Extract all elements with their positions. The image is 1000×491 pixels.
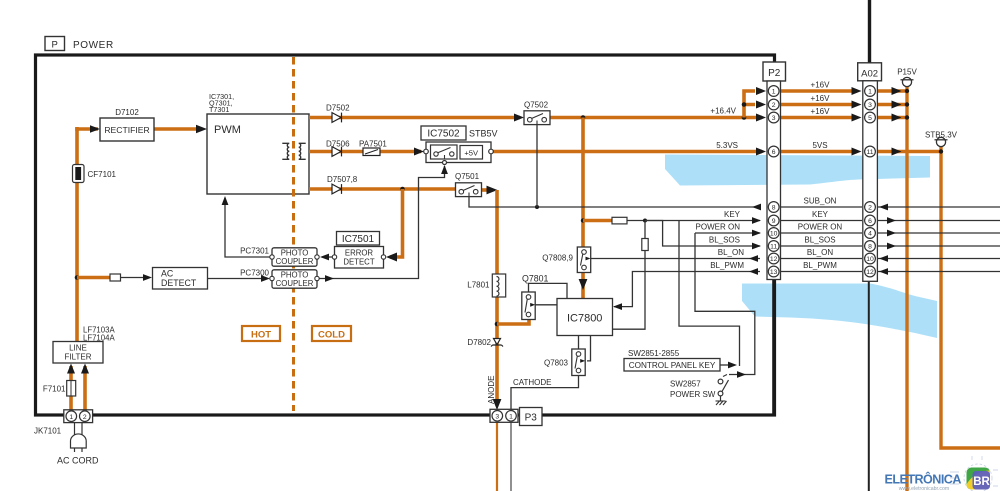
svg-text:RECTIFIER: RECTIFIER [104,125,149,135]
svg-text:Q7808,9: Q7808,9 [542,254,573,263]
svg-text:AC CORD: AC CORD [57,456,99,466]
svg-text:BL_SOS: BL_SOS [709,236,740,245]
svg-text:HOT: HOT [251,329,271,340]
arrow into rectifier [90,125,100,133]
svg-text:KEY: KEY [724,210,741,219]
node: key chain [643,219,647,223]
svg-text:COUPLER: COUPLER [276,279,314,288]
connector A02 [858,63,882,281]
svg-text:ELETRÔNICA: ELETRÔNICA [885,472,962,487]
wire: +16V rows A02 to P15V rail [877,91,940,152]
svg-text:11: 11 [770,244,777,251]
arrow on PC7300 output [325,275,334,282]
IC7501 tag [337,232,380,246]
svg-text:P3: P3 [525,413,538,424]
arrow into pin11 [752,243,761,250]
arrow into ERROR DETECT [386,253,397,262]
svg-text:www.eletronicabr.com: www.eletronicabr.com [899,486,949,491]
svg-text:13: 13 [770,269,778,276]
highlight band 2 (BL_PWM area) [742,284,937,339]
wire: resistor chain to IC7800 [613,221,646,330]
svg-text:POWER: POWER [73,40,114,51]
wire: BL_ON row [591,258,761,260]
A02 pins [865,86,876,277]
arrows into A02 pins 1,3,5,11 [852,87,862,156]
svg-text:LINE: LINE [69,343,87,352]
arrow into PC7300 [261,275,270,282]
svg-text:CONTROL PANEL KEY: CONTROL PANEL KEY [629,361,716,370]
ground for SW2857 [716,401,727,405]
svg-text:11: 11 [866,149,873,156]
node: Q7801 tap [495,322,500,327]
wire: Q7801 base link [535,304,557,306]
arrow into IC7800 right [613,303,622,310]
wire: riser to P2 pins 1,2 [744,91,755,118]
svg-text:3: 3 [772,115,776,122]
arrow into P3 pin3 [493,399,502,410]
svg-text:2: 2 [868,205,872,212]
resistor R-chain [642,239,648,251]
wire: PWM feedback from PC7301 [225,198,272,257]
arrow from power switch [737,371,746,378]
AC detect block [153,268,208,290]
node: P15V taps [905,89,909,93]
arrow into IC7800 top [579,279,588,290]
svg-text:5.3VS: 5.3VS [716,141,738,150]
arrow into PWM [196,125,207,133]
arrow into line filter (right) [81,364,89,374]
svg-text:+16.4V: +16.4V [710,107,736,116]
wire: x583 drop to Q7808,9 / IC7800 [581,118,585,249]
svg-text:SW2857: SW2857 [670,380,701,389]
svg-text:Q7501: Q7501 [455,172,480,181]
signal rows right of A02 [877,207,1000,272]
COLD label [312,326,351,341]
wire: control panel key output [720,364,731,366]
wire: KEY row into P2 pin9 [627,220,760,222]
wire: error detect to PC7301 [322,256,333,258]
error detect block [332,247,385,269]
svg-text:SW2851-2855: SW2851-2855 [628,349,680,358]
svg-text:1: 1 [868,89,872,96]
svg-text:3: 3 [495,414,499,421]
svg-text:5: 5 [868,115,872,122]
IC7800 block [557,299,613,336]
arrow into P2 pin2 [756,101,766,109]
wire: PWM out 5V line [309,150,421,154]
row labels between connectors [798,81,843,271]
svg-text:6: 6 [772,149,776,156]
arrow BL_PWM out [749,268,758,275]
arrow into IC7502 [414,148,424,156]
svg-text:Q7801: Q7801 [522,274,549,284]
node: Q7502 base tap [535,205,539,209]
svg-text:KEY: KEY [812,210,829,219]
svg-text:SUB_ON: SUB_ON [804,197,837,206]
wire: +16V rows P2 to A02 [780,91,857,152]
arrow SUB_ON out [752,204,761,211]
svg-text:A02: A02 [861,68,878,79]
wire: PC7300 out to IC7502 control [317,166,445,279]
hot/cold separator (dashed) [292,57,295,411]
wire: AC detect stub [77,276,110,280]
wire: tap to Q7801 [497,319,529,324]
connector P2 [763,62,786,280]
HOT label [242,326,280,341]
wire: rectifier to PWM [154,127,196,131]
highlight band 1 (5VS row) [665,155,930,186]
wire: PWM out STB line [309,187,456,191]
arrow into P2 pin6 [756,148,766,156]
svg-text:P15V: P15V [897,68,917,77]
resistor R-acdet [110,274,121,281]
svg-text:BL_ON: BL_ON [807,248,833,257]
wire to AC DETECT [121,277,143,279]
svg-text:JK7101: JK7101 [34,427,62,436]
wire: IC7502 out 5.3VS to P2 pin6 [493,150,762,154]
wire: key stub [583,219,612,223]
P2 pins [768,86,779,277]
wire: Q7803 emitter to P3 pin1 (cathode) [511,374,579,409]
svg-text:1: 1 [69,414,73,421]
arrow into AC DETECT [143,274,152,281]
node: riser tap pin2 [742,102,747,107]
svg-text:ANODE: ANODE [487,376,496,404]
svg-text:D7102: D7102 [115,108,139,117]
wire: standby rail down to P3 [495,190,499,402]
svg-text:6: 6 [868,218,872,225]
arrow into Q7502 [514,114,524,122]
svg-text:ERROR: ERROR [345,248,374,257]
svg-text:BL_PWM: BL_PWM [803,261,837,270]
wire: Q7502 out to P2 [550,116,762,120]
svg-text:DETECT: DETECT [161,278,197,288]
svg-text:+5V: +5V [464,148,479,157]
wire: line filter feeds [69,366,73,412]
arrow into pin10 [752,230,761,237]
node: 16V branch at x744 [742,115,747,120]
svg-text:4: 4 [868,231,872,238]
STB5.3V rail [941,147,1000,449]
arrow into pin9 [752,217,761,224]
svg-text:3: 3 [868,102,872,109]
P15V rail [905,87,908,491]
capacitor CF7101 [73,165,85,183]
arrow into PC7301 [320,254,329,261]
arrow into line filter (left) [67,364,75,374]
wire: rectifier input from left rail [77,129,98,131]
svg-text:POWER ON: POWER ON [696,223,741,232]
svg-text:L7801: L7801 [467,281,490,290]
arrow from control panel key [728,362,737,369]
arrows at A02 signal pins [879,204,888,211]
wire: Q7502 base drop [536,125,538,208]
svg-text:AC: AC [161,268,174,278]
svg-text:BL_ON: BL_ON [718,248,744,257]
svg-text:D7502: D7502 [326,104,350,113]
svg-text:+16V: +16V [811,107,831,116]
wire: IC7800 to Q7803 [578,336,580,350]
svg-text:D7802: D7802 [467,338,491,347]
wire: P2 stem to frame bottom [772,279,775,414]
svg-text:CATHODE: CATHODE [513,378,552,387]
svg-text:+16V: +16V [811,94,831,103]
svg-text:COLD: COLD [318,329,345,340]
row labels left of P2 [696,210,745,270]
svg-text:D7507,8: D7507,8 [327,175,358,184]
transformer T7301 coils [282,143,289,159]
svg-text:BL_SOS: BL_SOS [804,236,835,245]
EletronicaBR watermark logo [885,456,999,491]
svg-text:FILTER: FILTER [65,353,92,362]
svg-text:COUPLER: COUPLER [276,257,314,266]
svg-text:2: 2 [772,102,776,109]
wire: A02 tail to bottom [868,281,870,491]
node: error detect branch [400,187,405,192]
svg-text:POWER ON: POWER ON [798,223,843,232]
svg-text:8: 8 [772,205,776,212]
wire: below P3 [496,421,498,491]
AC plug [71,423,87,452]
svg-text:Q7502: Q7502 [524,101,549,110]
svg-text:PC7301: PC7301 [240,247,269,256]
wire: POWER ON riser from power switch [695,233,755,375]
IC7502 regulator block [421,126,466,140]
svg-text:POWER SW: POWER SW [670,390,716,399]
arrow into P2 pin1 [756,87,766,95]
wire: KEY riser from control panel [679,221,740,367]
power section frame [36,55,775,415]
arrows on +16V outputs [892,87,902,156]
svg-text:CF7101: CF7101 [88,170,117,179]
connector JK7101 [64,410,93,423]
node: STB tap [939,149,943,153]
arrow BL_ON out [749,255,758,262]
svg-text:1: 1 [509,414,513,421]
wire: left hot rail vertical [75,127,79,343]
wire: BL_PWM row [614,272,760,307]
svg-text:BR: BR [973,476,990,488]
svg-text:IC7501: IC7501 [342,234,375,245]
arrow into IC7502 control [441,165,448,174]
svg-text:F7101: F7101 [43,385,66,394]
svg-text:P: P [52,40,58,51]
svg-text:P2: P2 [768,68,781,79]
svg-text:1: 1 [772,89,776,96]
connector P3 [490,408,542,426]
svg-text:8: 8 [868,244,872,251]
wire: A02 stem from top [868,0,871,63]
wire: below P3 pin1 [510,421,512,491]
svg-text:DETECT: DETECT [343,257,374,266]
node: AC detect tap [75,275,80,280]
resistor R-key [612,217,627,224]
arrow into P2 pin3 [756,114,766,122]
wire: branch down to error detect [390,189,403,257]
wire: Q7501 out turning down [482,188,488,192]
svg-text:2: 2 [83,414,87,421]
P block tag [45,37,65,51]
svg-text:12: 12 [866,269,874,276]
wire: BL_SOS link from key chain [645,221,760,247]
svg-text:Q7803: Q7803 [544,359,569,368]
wire: POWER ON row [695,232,760,234]
wire: Q7801 collector to IC7800 [529,283,568,298]
signal rows P2 to A02 [780,207,862,272]
arrow at Q7501 output [487,186,498,195]
svg-text:10: 10 [866,256,874,263]
svg-text:PA7501: PA7501 [359,140,387,149]
svg-text:+16V: +16V [811,81,831,90]
svg-text:D7506: D7506 [326,140,350,149]
svg-text:PWM: PWM [214,124,241,136]
svg-text:5VS: 5VS [812,141,827,150]
wire: IC7800 to Q7803 base [587,336,591,361]
wire: AC DETECT to PC7300 [208,278,263,280]
svg-text:9: 9 [772,218,776,225]
svg-text:PC7300: PC7300 [240,269,269,278]
svg-text:STB5V: STB5V [469,129,498,139]
svg-text:10: 10 [770,231,778,238]
node: key stub tap [581,218,585,222]
svg-text:IC7800: IC7800 [567,313,602,325]
wire: SUB_ON line [469,197,760,208]
node: 16V branch at x583 [581,115,586,120]
arrow into PWM bottom [222,196,229,205]
wire: PWM out +16 line [309,116,520,120]
svg-text:BL_PWM: BL_PWM [710,261,744,270]
svg-text:IC7502: IC7502 [427,129,460,140]
svg-text:T7301: T7301 [209,105,229,114]
svg-text:12: 12 [770,256,778,263]
